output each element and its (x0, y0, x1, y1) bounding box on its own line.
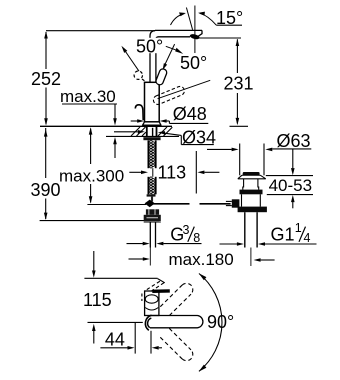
svg-text:50°: 50° (136, 36, 163, 56)
40-53 bottom ref line (267, 194, 313, 196)
dimension D34 leader right (158, 131, 165, 135)
drain flange (238, 175, 266, 179)
spout underside (159, 36, 191, 38)
svg-text:3: 3 (183, 223, 190, 237)
drain neck (243, 179, 259, 190)
shank through deck (146, 127, 148, 137)
15 deg tilted line (186, 8, 192, 30)
deck line extended right under 231 arrow (230, 125, 249, 127)
drain axis extension line (250, 248, 252, 267)
svg-text:390: 390 (30, 180, 60, 200)
drain collar (238, 207, 267, 213)
lever dashed swung position (147, 281, 161, 290)
max.30 up arrow below deck (114, 144, 116, 158)
dimension max.180 (129, 258, 144, 260)
deck underside line (106, 135, 179, 137)
svg-text:4: 4 (304, 231, 311, 245)
G3/8 nut (146, 209, 159, 215)
dashed lever tip tick at ref line (158, 279, 165, 283)
spout dashed position down-right (160, 328, 193, 360)
G3/8 arrows (127, 243, 144, 245)
15 deg arc left (171, 14, 185, 25)
dimension 252 vertical line (45, 32, 47, 69)
svg-text:max.30: max.30 (60, 87, 116, 106)
D63 arrows (207, 148, 232, 150)
label 50deg upper left (135, 38, 165, 53)
left 50deg leader with arrow (125, 51, 139, 71)
svg-text:1: 1 (295, 221, 302, 235)
lever (plan) rect (145, 291, 159, 316)
dimension 231 top ref line (spout underside extended) (196, 37, 241, 39)
dimension D63 extension lines (239, 144, 241, 176)
faucet tail extension line (149, 248, 151, 266)
hose end cap (147, 194, 156, 196)
svg-text:G1: G1 (271, 225, 295, 245)
115 top ref line (84, 277, 157, 279)
lever axis leader with arrow (164, 44, 175, 66)
drain body (241, 194, 243, 206)
pull-rod hook (135, 105, 143, 120)
hose gap middle line (152, 168, 154, 177)
G1 1/4 arrows (220, 243, 238, 245)
dimension max.300 vertical line (90, 129, 92, 165)
dimension 390 vertical line (45, 128, 47, 178)
faucet tailpipe (149, 222, 151, 248)
small dashes left of lever (141, 294, 143, 302)
90 deg arc (199, 274, 222, 372)
spout pivot centerline (194, 6, 196, 54)
dashed knob circle (lever rotated) (134, 71, 142, 79)
dimension 231 vertical line (236, 39, 238, 73)
aerator (dark) (189, 33, 200, 40)
svg-text:44: 44 (105, 329, 125, 349)
svg-text:231: 231 (223, 74, 253, 94)
113 extension line (spout tip axis) (195, 151, 197, 194)
svg-text:max.180: max.180 (169, 250, 234, 269)
base bottom bar on deck (143, 124, 162, 126)
max.30 down arrow to deck (114, 104, 116, 119)
15 deg arc right (200, 13, 216, 25)
dimension D48 arrows (131, 120, 138, 122)
lever paddle dark bar (152, 289, 170, 293)
solid lever (156, 69, 167, 85)
drain tailpipe (244, 212, 246, 247)
svg-text:50°: 50° (180, 53, 207, 73)
base flare (142, 122, 161, 126)
faucet body (145, 82, 160, 122)
390 bottom reference line (40, 220, 160, 222)
drain side port (232, 199, 240, 207)
dimension 113 leader left arrow (129, 171, 141, 173)
40-53 arrows (292, 149, 294, 168)
spout head (196, 30, 202, 37)
115 dim arrows (93, 251, 95, 272)
lever down-position axis line (158, 80, 211, 98)
lever neck ellipse (145, 295, 158, 303)
spout top line (155, 29, 202, 31)
svg-text:Ø63: Ø63 (277, 131, 311, 151)
deck hatching right (158, 127, 167, 136)
washer under nut (144, 221, 161, 223)
svg-text:90°: 90° (207, 312, 234, 332)
spout dashed position up-right (160, 283, 193, 315)
short leader arrow near 50deg (166, 46, 177, 50)
thin link to rod (150, 197, 152, 202)
drain flange cap (243, 172, 260, 175)
svg-text:252: 252 (31, 69, 61, 89)
rod joint diamond (145, 200, 155, 208)
dimension 113 leader right arrow (197, 171, 204, 175)
max.300 bottom reference line / pop-up rod (87, 204, 146, 206)
faucet vertical pipe (150, 31, 155, 83)
40-53 top ref line (266, 175, 313, 177)
braided hose upper (148, 140, 155, 168)
svg-text:8: 8 (193, 231, 200, 245)
svg-text:115: 115 (83, 290, 112, 310)
deck top line (40, 125, 172, 127)
dimension D34 leader left (114, 131, 138, 133)
svg-text:Ø48: Ø48 (173, 104, 207, 124)
svg-text:40-53: 40-53 (269, 176, 312, 195)
spout (plan) capsule (152, 315, 198, 317)
braided hose lower (148, 177, 155, 195)
fixing nut band under deck (143, 137, 160, 140)
44 arrows (100, 347, 127, 349)
top reference line (spout top extended left) (46, 30, 155, 32)
svg-text:113: 113 (158, 162, 187, 182)
drain O-ring band (240, 190, 263, 195)
svg-text:max.300: max.300 (59, 167, 124, 186)
lever down-position dashed capsule (153, 86, 184, 104)
deck hatching left (131, 127, 140, 136)
spout left end double arc (145, 315, 151, 330)
spout centerline (plan) (88, 321, 143, 323)
44 extension lines (134, 323, 136, 354)
